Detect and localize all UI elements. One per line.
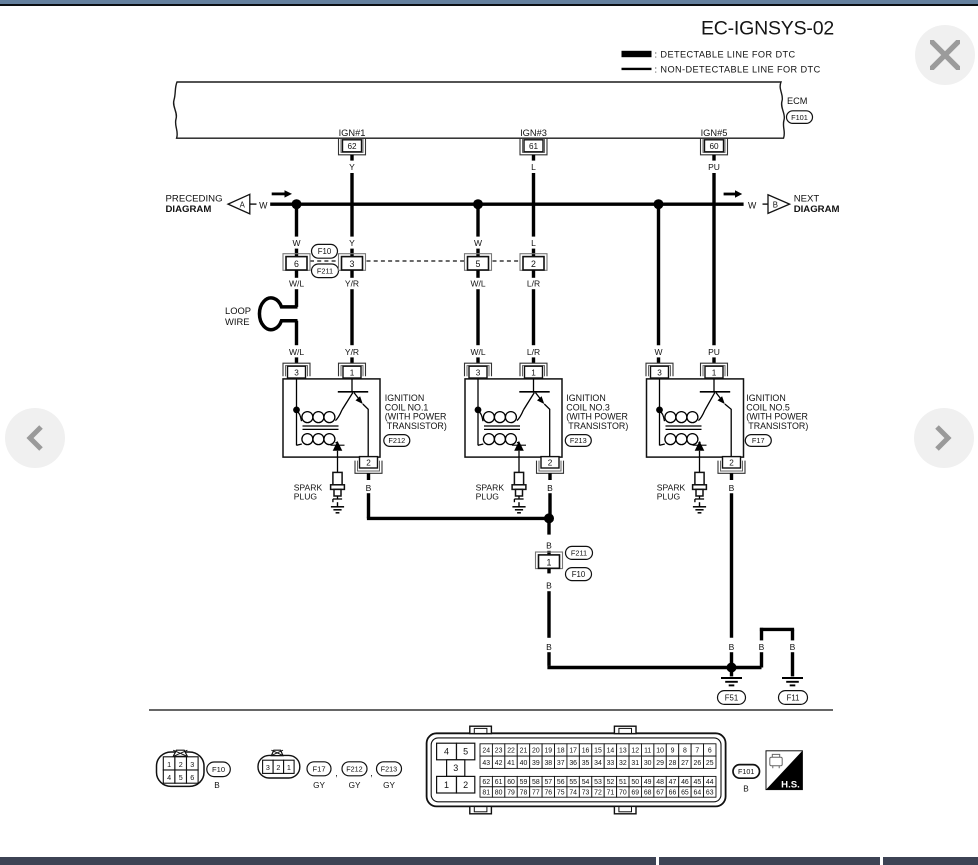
- svg-text:15: 15: [594, 747, 602, 754]
- wire W from bus-right dot down to coil 5 pin 3: [657, 204, 660, 345]
- svg-text:4: 4: [444, 747, 449, 757]
- connector box 6 (F10/F211): [283, 254, 310, 271]
- svg-text:5: 5: [476, 259, 481, 269]
- connector F101 label (bottom): [733, 765, 760, 794]
- svg-text:53: 53: [594, 779, 602, 786]
- svg-text:33: 33: [607, 760, 615, 767]
- wire stub below ECM pin 61: [532, 155, 535, 161]
- svg-text:B: B: [773, 200, 778, 209]
- spark plug text: [294, 483, 323, 502]
- svg-text:59: 59: [520, 779, 528, 786]
- wire W from bus-left dot down: [295, 204, 298, 236]
- label Y: [349, 238, 355, 248]
- wire stub below ECM pin 62: [350, 155, 353, 161]
- svg-text:3: 3: [476, 368, 481, 377]
- svg-text:46: 46: [681, 779, 689, 786]
- svg-text:47: 47: [669, 779, 677, 786]
- svg-text:10: 10: [656, 747, 664, 754]
- svg-text:B: B: [729, 642, 735, 652]
- wire stub to triangle B: [763, 203, 769, 205]
- svg-text:42: 42: [495, 760, 503, 767]
- svg-text:1: 1: [350, 368, 355, 377]
- svg-text:38: 38: [544, 760, 552, 767]
- svg-text:41: 41: [507, 760, 515, 767]
- loop wire symbol: [259, 298, 297, 330]
- svg-text:18: 18: [557, 747, 565, 754]
- svg-text:GY: GY: [383, 781, 395, 790]
- svg-text:60: 60: [709, 142, 719, 151]
- ECM connector F101 shell: [427, 726, 726, 814]
- direction arrow at next: [724, 190, 743, 197]
- viewer bottom toolbar: [0, 857, 656, 865]
- svg-text:25: 25: [706, 760, 714, 767]
- svg-text:32: 32: [619, 760, 627, 767]
- label Y/R: [345, 347, 359, 357]
- svg-text:56: 56: [557, 779, 565, 786]
- junction node bus-left: [292, 199, 302, 209]
- connector F10 label (bottom): [207, 762, 231, 790]
- connector box 2: [520, 254, 547, 271]
- spark plug for coil NO.1: [331, 458, 345, 503]
- svg-text:B: B: [214, 781, 220, 790]
- label B: [729, 642, 735, 652]
- svg-text:62: 62: [347, 142, 357, 151]
- svg-text:W: W: [292, 238, 300, 248]
- wire B from junction down: [547, 518, 550, 534]
- svg-text:2: 2: [531, 259, 536, 269]
- svg-text:35: 35: [582, 760, 590, 767]
- wire stub below connector box (L/R): [532, 270, 535, 278]
- svg-text:,: ,: [370, 768, 373, 778]
- svg-text:B: B: [790, 642, 796, 652]
- connector F10 label: [566, 568, 592, 581]
- svg-text:PLUG: PLUG: [294, 492, 318, 502]
- svg-text:,: ,: [335, 768, 338, 778]
- svg-text:F10: F10: [212, 765, 225, 774]
- svg-text:8: 8: [683, 747, 687, 754]
- svg-text:37: 37: [557, 760, 565, 767]
- svg-text:F51: F51: [725, 693, 738, 702]
- svg-text:34: 34: [594, 760, 602, 767]
- separator rule: [149, 709, 833, 711]
- loop wire text: [225, 305, 251, 327]
- svg-text:F101: F101: [791, 113, 808, 122]
- wire B from coil1 pin2: [367, 473, 370, 480]
- svg-text:21: 21: [520, 747, 528, 754]
- svg-text:49: 49: [644, 779, 652, 786]
- label W at preceding: [259, 200, 268, 210]
- wire B top of branch: [760, 628, 794, 641]
- svg-text:TRANSISTOR): TRANSISTOR): [568, 421, 628, 431]
- svg-text:19: 19: [544, 747, 552, 754]
- ECM pin 61 IGN#3: [520, 128, 547, 155]
- svg-text:14: 14: [607, 747, 615, 754]
- wire W into connector box 6: [295, 249, 298, 257]
- svg-text:64: 64: [694, 790, 702, 797]
- wire B to bottom bus: [547, 652, 550, 666]
- svg-text:2: 2: [729, 459, 734, 468]
- svg-text:13: 13: [619, 747, 627, 754]
- connector F10 label: [312, 244, 338, 258]
- wire B long down segment: [547, 591, 550, 638]
- svg-text:1: 1: [167, 760, 171, 769]
- svg-text:W/L: W/L: [289, 347, 304, 357]
- svg-text:B: B: [366, 483, 372, 493]
- wire B long down: [730, 493, 733, 638]
- svg-text:1: 1: [444, 780, 449, 790]
- spark plug text: [476, 483, 505, 502]
- svg-text:PRECEDING: PRECEDING: [166, 194, 223, 205]
- wire PU from ECM pin 60 down to coil 5 pin 1 (crosses bus): [712, 173, 715, 345]
- label W at next: [748, 200, 757, 210]
- wire color label L: [531, 162, 536, 172]
- label B: [759, 642, 765, 652]
- svg-text:43: 43: [482, 760, 490, 767]
- wire L from ECM pin 61 (crosses bus): [532, 173, 535, 237]
- svg-text:61: 61: [495, 779, 503, 786]
- svg-text:70: 70: [619, 790, 627, 797]
- svg-text:3: 3: [657, 368, 662, 377]
- svg-text:61: 61: [529, 142, 539, 151]
- svg-text:B: B: [743, 784, 749, 793]
- svg-text:F101: F101: [738, 767, 754, 776]
- wire B from coil5 pin2: [730, 473, 733, 480]
- connector box 3: [339, 254, 366, 271]
- svg-text:A: A: [240, 200, 246, 209]
- ignition coil NO.3 (with power transistor): [465, 363, 564, 473]
- ground F51 connector label: [718, 691, 746, 705]
- svg-text:62: 62: [482, 779, 490, 786]
- svg-text:DIAGRAM: DIAGRAM: [166, 204, 212, 215]
- wire L/R long segment: [532, 289, 535, 345]
- svg-text:B: B: [546, 580, 552, 590]
- spark plug for coil NO.5: [693, 458, 707, 503]
- svg-text:W: W: [748, 200, 757, 210]
- svg-text:65: 65: [681, 790, 689, 797]
- svg-text:2: 2: [366, 459, 371, 468]
- wire B up from bus (to F11 branch): [760, 652, 763, 667]
- label W: [292, 238, 300, 248]
- svg-text:75: 75: [557, 790, 565, 797]
- svg-text:LOOP: LOOP: [225, 305, 251, 316]
- wire W from preceding into bus: [270, 202, 293, 205]
- svg-text:80: 80: [495, 790, 503, 797]
- svg-text:77: 77: [532, 790, 540, 797]
- W bus wire mid segment: [478, 202, 659, 205]
- wire W/L into coil pin: [476, 357, 479, 363]
- viewer top bar: [0, 0, 978, 4]
- wire stub from triangle A: [250, 203, 257, 205]
- svg-text:69: 69: [631, 790, 639, 797]
- svg-text:F211: F211: [317, 266, 333, 275]
- wire stub below ECM pin 60: [712, 155, 715, 161]
- svg-text:12: 12: [631, 747, 639, 754]
- svg-text:F213: F213: [570, 436, 587, 445]
- junction node bus-right: [654, 199, 664, 209]
- svg-text:F212: F212: [346, 764, 362, 773]
- svg-text:29: 29: [656, 760, 664, 767]
- svg-text:F17: F17: [752, 436, 765, 445]
- svg-text:F11: F11: [787, 693, 800, 702]
- svg-text:20: 20: [532, 747, 540, 754]
- connector F17 label (bottom): [307, 762, 331, 790]
- spark plug for coil NO.3: [512, 458, 526, 503]
- svg-text:GY: GY: [349, 781, 361, 790]
- wire W/L into coil1 pin3: [295, 357, 298, 363]
- svg-text:W/L: W/L: [289, 278, 304, 288]
- svg-text:1: 1: [287, 763, 291, 772]
- wire W from bus-mid dot down: [476, 204, 479, 236]
- wire B to ground junction: [730, 652, 733, 664]
- svg-text:DIAGRAM: DIAGRAM: [794, 204, 840, 215]
- svg-text:F10: F10: [318, 247, 332, 256]
- svg-text:4: 4: [167, 773, 171, 782]
- wire Y/R long segment: [350, 289, 353, 345]
- svg-text:B: B: [546, 642, 552, 652]
- wire B from coil3 pin2: [548, 473, 551, 480]
- svg-text:6: 6: [294, 259, 299, 269]
- W bus wire right segment to next-diagram: [659, 202, 744, 205]
- wire Y into connector box 3: [350, 249, 353, 257]
- svg-text:H.S.: H.S.: [781, 779, 800, 790]
- svg-text:: NON-DETECTABLE LINE FOR DTC: : NON-DETECTABLE LINE FOR DTC: [655, 65, 821, 75]
- label B: [546, 580, 552, 590]
- next diagram connector triangle B: [768, 195, 790, 214]
- svg-text:79: 79: [507, 790, 515, 797]
- ECM pin 62 IGN#1: [339, 128, 366, 155]
- connector view F17/F212/F213 (3-pin): [258, 750, 300, 778]
- label B: [546, 541, 552, 551]
- svg-text:B: B: [547, 483, 553, 493]
- connector F101 label: [787, 111, 813, 124]
- wire B below connector box 1: [547, 569, 550, 574]
- wire color label Y: [349, 162, 355, 172]
- svg-text:6: 6: [708, 747, 712, 754]
- label B: [790, 642, 796, 652]
- svg-text:L/R: L/R: [527, 347, 540, 357]
- svg-text:B: B: [759, 642, 765, 652]
- dashed connector alignment line: [310, 260, 521, 262]
- label W: [654, 347, 662, 357]
- svg-text:ECM: ECM: [787, 96, 807, 106]
- svg-text:W/L: W/L: [470, 347, 485, 357]
- ignition coil NO.3 text label: [566, 393, 628, 431]
- svg-text:27: 27: [681, 760, 689, 767]
- ground F11: [782, 678, 803, 685]
- ignition coil NO.1 text label: [385, 393, 447, 431]
- wire W/L lower segment: [295, 321, 298, 346]
- svg-text:55: 55: [569, 779, 577, 786]
- wire B down to junction: [548, 493, 551, 515]
- connector F211 label: [566, 546, 593, 559]
- diagram title EC-IGNSYS-02: [701, 18, 834, 40]
- connector F17 label: [745, 435, 771, 447]
- W bus wire left segment: [297, 202, 479, 205]
- spark plug text: [657, 483, 686, 502]
- wire W into connector box 5: [476, 249, 479, 257]
- wire W/L upper segment into loop: [295, 289, 298, 307]
- junction node bus-mid: [473, 199, 483, 209]
- svg-text:F213: F213: [381, 764, 397, 773]
- svg-text:TRANSISTOR): TRANSISTOR): [748, 421, 808, 431]
- svg-text:54: 54: [582, 779, 590, 786]
- svg-text:3: 3: [453, 763, 458, 773]
- ignition coil NO.1 (with power transistor): [283, 363, 382, 473]
- wire B into connector box 1: [547, 551, 550, 555]
- svg-text:W: W: [259, 200, 268, 210]
- svg-text:28: 28: [669, 760, 677, 767]
- svg-text:2: 2: [179, 760, 183, 769]
- svg-text:L/R: L/R: [527, 278, 540, 288]
- svg-text:5: 5: [179, 773, 183, 782]
- label L: [531, 238, 536, 248]
- svg-text:3: 3: [294, 368, 299, 377]
- spark plug ground for coil NO.3: [512, 502, 525, 513]
- svg-text:3: 3: [350, 259, 355, 269]
- svg-text:48: 48: [656, 779, 664, 786]
- svg-text:B: B: [729, 483, 735, 493]
- label L/R: [527, 347, 540, 357]
- svg-text:Y: Y: [349, 162, 355, 172]
- viewer previous-page button: [5, 408, 65, 468]
- svg-text:26: 26: [694, 760, 702, 767]
- svg-text:22: 22: [507, 747, 515, 754]
- junction node B-mid: [544, 513, 554, 523]
- svg-text:51: 51: [619, 779, 627, 786]
- wire L into connector box 2: [532, 249, 535, 257]
- wire stub below connector box (W/L): [476, 270, 479, 278]
- wire B down to ground F11: [791, 652, 794, 676]
- legend detectable line for DTC: [622, 49, 796, 59]
- svg-text:60: 60: [507, 779, 515, 786]
- ECM label: [787, 96, 807, 106]
- svg-text:44: 44: [706, 779, 714, 786]
- svg-text:58: 58: [532, 779, 540, 786]
- svg-text:81: 81: [482, 790, 490, 797]
- ECM F101 pin row 81-63: [480, 787, 716, 797]
- svg-text:5: 5: [463, 747, 468, 757]
- connector F213 label (bottom): [377, 762, 402, 790]
- svg-text:7: 7: [695, 747, 699, 754]
- label B: [729, 483, 735, 493]
- label W/L: [289, 347, 304, 357]
- svg-text:23: 23: [495, 747, 503, 754]
- label B: [547, 483, 553, 493]
- ECM connector key pins 1-5: [437, 743, 475, 793]
- wire B down and right to junction: [367, 493, 549, 518]
- svg-text:IGN#3: IGN#3: [520, 128, 547, 138]
- wire color label PU: [708, 162, 720, 172]
- svg-text:72: 72: [594, 790, 602, 797]
- ground F51: [721, 668, 742, 686]
- svg-text:Y/R: Y/R: [345, 278, 359, 288]
- connector box 1 (F211/F10): [536, 552, 563, 569]
- svg-text:2: 2: [548, 459, 553, 468]
- comma: [335, 768, 338, 778]
- wire L/R into coil pin: [532, 357, 535, 363]
- svg-text:TRANSISTOR): TRANSISTOR): [387, 421, 447, 431]
- svg-text:F211: F211: [571, 549, 587, 558]
- wire W/L long segment: [476, 289, 479, 345]
- svg-text:F10: F10: [572, 570, 586, 579]
- svg-text:50: 50: [631, 779, 639, 786]
- connector F212 label (bottom): [342, 762, 367, 790]
- svg-text:Y/R: Y/R: [345, 347, 359, 357]
- viewer next-page button: [914, 408, 974, 468]
- svg-text:11: 11: [644, 747, 651, 754]
- svg-text:17: 17: [569, 747, 577, 754]
- svg-text:30: 30: [644, 760, 652, 767]
- connector F212 label: [384, 435, 410, 447]
- svg-text:63: 63: [706, 790, 714, 797]
- svg-text:NEXT: NEXT: [794, 193, 820, 204]
- svg-text:2: 2: [276, 763, 280, 772]
- svg-text:F212: F212: [388, 436, 405, 445]
- junction node B-ground: [727, 663, 737, 673]
- preceding diagram connector triangle A: [228, 194, 250, 214]
- wire Y/R into coil pin: [350, 357, 353, 363]
- svg-text:9: 9: [671, 747, 675, 754]
- connector box 5: [465, 254, 492, 271]
- connector F213 label: [565, 435, 591, 447]
- svg-text:1: 1: [547, 557, 552, 567]
- viewer close button: [915, 25, 975, 85]
- label W/L: [470, 347, 485, 357]
- svg-text:36: 36: [569, 760, 577, 767]
- svg-text:39: 39: [532, 760, 540, 767]
- svg-text:F17: F17: [312, 765, 325, 774]
- label W/L: [470, 278, 485, 288]
- svg-text:WIRE: WIRE: [225, 316, 249, 327]
- svg-text:76: 76: [544, 790, 552, 797]
- svg-text:16: 16: [582, 747, 590, 754]
- svg-text:: DETECTABLE LINE FOR DTC: : DETECTABLE LINE FOR DTC: [655, 49, 796, 59]
- svg-text:PLUG: PLUG: [476, 492, 500, 502]
- wire Y from ECM pin 62 to connector F10-6? (crosses bus): [350, 173, 353, 237]
- svg-text:IGN#5: IGN#5: [701, 128, 728, 138]
- label W: [474, 238, 482, 248]
- svg-text:71: 71: [607, 790, 615, 797]
- label Y/R: [345, 278, 359, 288]
- svg-text:L: L: [531, 162, 536, 172]
- svg-text:W/L: W/L: [470, 278, 485, 288]
- svg-text:6: 6: [190, 773, 194, 782]
- svg-text:1: 1: [712, 368, 717, 377]
- comma: [370, 768, 373, 778]
- label W/L: [289, 278, 304, 288]
- label B: [546, 642, 552, 652]
- preceding diagram text: [166, 194, 223, 216]
- ECM module band: [174, 82, 785, 138]
- svg-text:B: B: [546, 541, 552, 551]
- svg-text:31: 31: [631, 760, 639, 767]
- svg-text:1: 1: [531, 368, 536, 377]
- svg-text:45: 45: [694, 779, 702, 786]
- svg-text:52: 52: [607, 779, 615, 786]
- svg-text:3: 3: [266, 763, 270, 772]
- svg-text:L: L: [531, 238, 536, 248]
- label L/R: [527, 278, 540, 288]
- label B: [366, 483, 372, 493]
- svg-text:W: W: [654, 347, 662, 357]
- svg-text:GY: GY: [313, 781, 325, 790]
- svg-text:24: 24: [482, 747, 490, 754]
- direction arrow at preceding: [272, 190, 292, 197]
- wire W into coil5 pin3: [657, 357, 660, 363]
- wire stub below connector box (Y/R): [350, 270, 353, 278]
- wire PU into coil5 pin1: [712, 357, 715, 363]
- spark plug ground for coil NO.5: [693, 502, 706, 513]
